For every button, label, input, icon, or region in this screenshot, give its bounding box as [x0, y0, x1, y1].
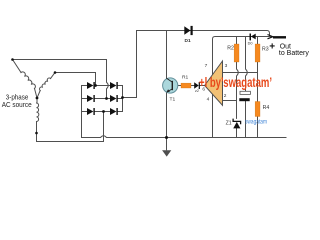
svg-text:swagatam: swagatam — [245, 119, 267, 125]
wire bridge right rail — [122, 86, 124, 112]
wire T1 base to R1 to Z2 to op-amp — [172, 85, 204, 87]
svg-text:AC source: AC source — [2, 100, 32, 109]
wire op-amp pin2 horizontal — [223, 100, 237, 102]
svg-text:to Battery: to Battery — [279, 50, 309, 57]
wire phase B horizontal and riser with hop over row1 — [13, 60, 109, 99]
wire op-amp pin4 riser to ground bus — [212, 93, 214, 138]
svg-text:R4: R4 — [263, 105, 270, 111]
capacitor C1 bottom plate — [239, 98, 249, 101]
wire phase A horizontal and riser — [55, 73, 96, 86]
wire R2-Z1 column with hop over pin3 wire — [236, 37, 238, 45]
wire T1 collector column — [166, 31, 168, 79]
zener Z1 — [233, 119, 241, 129]
diode D1 on top bus — [184, 26, 192, 35]
svg-text:Z1: Z1 — [226, 121, 232, 127]
svg-text:2: 2 — [224, 93, 227, 99]
svg-text:R2: R2 — [227, 46, 234, 52]
inductor winding W3 bottom coil — [37, 103, 39, 122]
wire top bus from bridge+ to output bend — [137, 31, 270, 37]
bridge diode BD3 left row2 — [87, 95, 95, 102]
wire bridge row2 — [82, 98, 123, 100]
wire ground bus with hop over phase C riser — [82, 136, 287, 138]
wire bridge left rail — [81, 86, 83, 138]
bridge diode BD4 right row2 — [110, 95, 118, 102]
inductor winding W2 upper-right coil — [40, 78, 51, 90]
wire phase C from winding bottom to bridge row3 — [37, 112, 104, 142]
resistor R1 — [181, 83, 191, 88]
wire lower supply line with pin7 riser — [213, 37, 272, 75]
svg-text:+l by’swagatam’: +l by’swagatam’ — [199, 75, 272, 90]
capacitor C1 top plate — [240, 91, 250, 94]
svg-text:R1: R1 — [182, 75, 189, 81]
inductor winding W1 upper-left coil — [21, 72, 35, 89]
resistor R2 — [234, 44, 239, 62]
svg-text:D0: D0 — [248, 41, 253, 45]
zener Z2 — [194, 82, 200, 89]
diode D0 on lower supply line — [250, 34, 256, 41]
ground symbol — [162, 138, 171, 157]
wire T1 emitter column — [166, 93, 168, 138]
resistor R3 — [255, 44, 260, 62]
wire bridge row1 — [82, 85, 123, 87]
svg-text:4: 4 — [207, 97, 210, 103]
svg-text:T1: T1 — [170, 97, 176, 103]
resistor R4 — [255, 102, 260, 117]
wire op-amp pin3 horizontal — [223, 72, 258, 74]
svg-text:+: + — [269, 42, 275, 53]
wire bridge row3 — [82, 111, 123, 113]
op-amp U1 — [205, 61, 223, 105]
bridge diode BD5 left row3 — [87, 108, 95, 115]
wire wye center links — [35, 89, 41, 104]
svg-text:R3: R3 — [262, 46, 269, 52]
transistor T1 — [163, 78, 178, 93]
bridge diode BD1 left row1 — [87, 82, 95, 89]
junction dots — [11, 58, 168, 139]
wire W2 end diagonal to phase A dot — [51, 73, 56, 79]
bridge diode BD6 right row3 — [110, 108, 118, 115]
wire R3-R4 column — [257, 37, 259, 45]
svg-text:3: 3 — [225, 63, 228, 69]
svg-text:D1: D1 — [185, 38, 191, 44]
output arrowhead — [268, 35, 273, 39]
wire bus riser down to bridge positive rail — [123, 31, 137, 98]
bridge diode BD2 right row1 — [110, 82, 118, 89]
wire capacitor column with hop over pin3 wire — [246, 37, 248, 92]
svg-text:7: 7 — [205, 63, 208, 69]
output thick lead — [273, 36, 286, 38]
